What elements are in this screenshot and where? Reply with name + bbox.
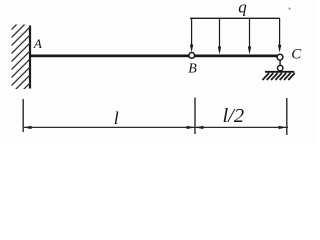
dimension line [23,126,288,128]
stray speck [289,8,291,10]
svg-text:A: A [33,36,42,51]
distributed load q top line [190,17,280,19]
ground hatching under C [263,73,295,80]
svg-text:C: C [291,47,302,63]
load arrow 2 [218,18,221,54]
fixed support wall at A [9,10,31,104]
hinge B [189,53,195,59]
load arrow 3 [248,18,251,54]
svg-text:l: l [114,108,119,128]
load arrow 1 [190,18,193,52]
load arrow 4 [278,18,281,52]
roller circle at C [278,65,283,70]
svg-text:B: B [188,62,197,77]
svg-text:l/2: l/2 [222,105,244,127]
roller link at C [279,60,281,66]
dimension arrowheads [23,126,286,129]
dimension extension line right [286,98,288,135]
ground line under C [265,71,294,73]
beam A-B-C [29,55,277,58]
dimension extension line left [22,99,24,132]
svg-text:q: q [238,0,247,17]
pin C [277,54,283,60]
dimension extension line middle [194,98,196,135]
